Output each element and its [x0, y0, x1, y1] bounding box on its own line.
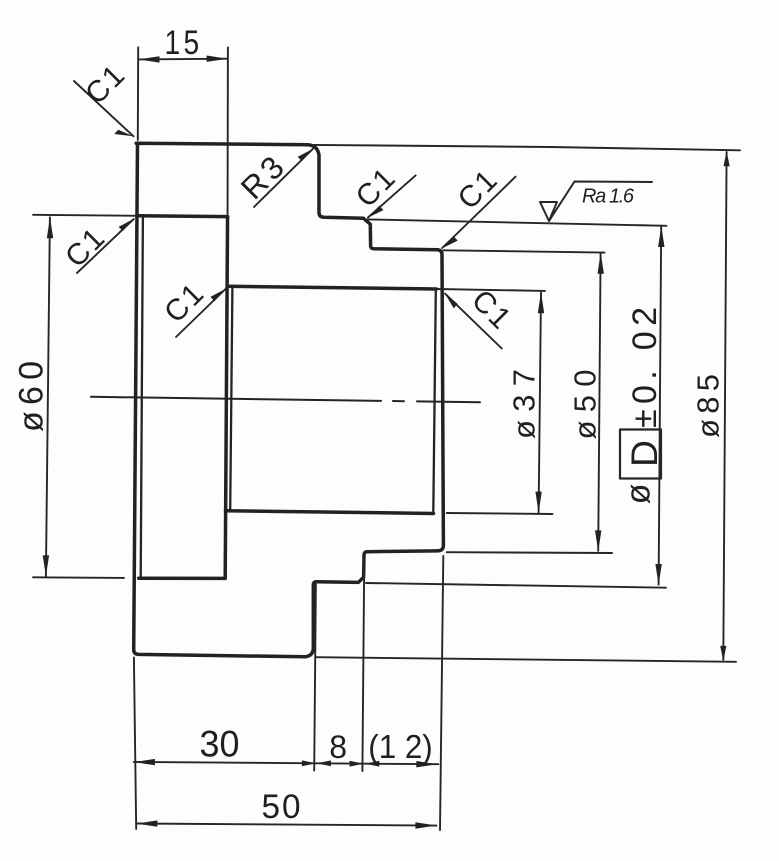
svg-text:(1 2): (1 2) [368, 728, 433, 765]
svg-text:Ra 1.6: Ra 1.6 [582, 186, 635, 208]
svg-text:C1: C1 [158, 276, 211, 329]
svg-text:30: 30 [200, 724, 240, 765]
svg-text:ø60: ø60 [13, 361, 51, 432]
svg-text:50: 50 [262, 788, 303, 826]
svg-text:C1: C1 [350, 161, 403, 214]
svg-text:ø85: ø85 [691, 374, 726, 438]
svg-text:D: D [624, 440, 665, 467]
svg-text:C1: C1 [452, 163, 505, 216]
svg-text:R3: R3 [234, 146, 294, 206]
svg-text:±0. 02: ±0. 02 [626, 307, 664, 428]
svg-text:ø50: ø50 [568, 370, 603, 440]
svg-text:C1: C1 [465, 284, 518, 337]
svg-text:C1: C1 [59, 221, 112, 274]
svg-text:8: 8 [329, 729, 347, 765]
svg-text:ø37: ø37 [507, 369, 542, 439]
svg-text:ø: ø [620, 484, 658, 505]
svg-text:15: 15 [165, 24, 203, 62]
svg-text:C1: C1 [79, 58, 132, 111]
